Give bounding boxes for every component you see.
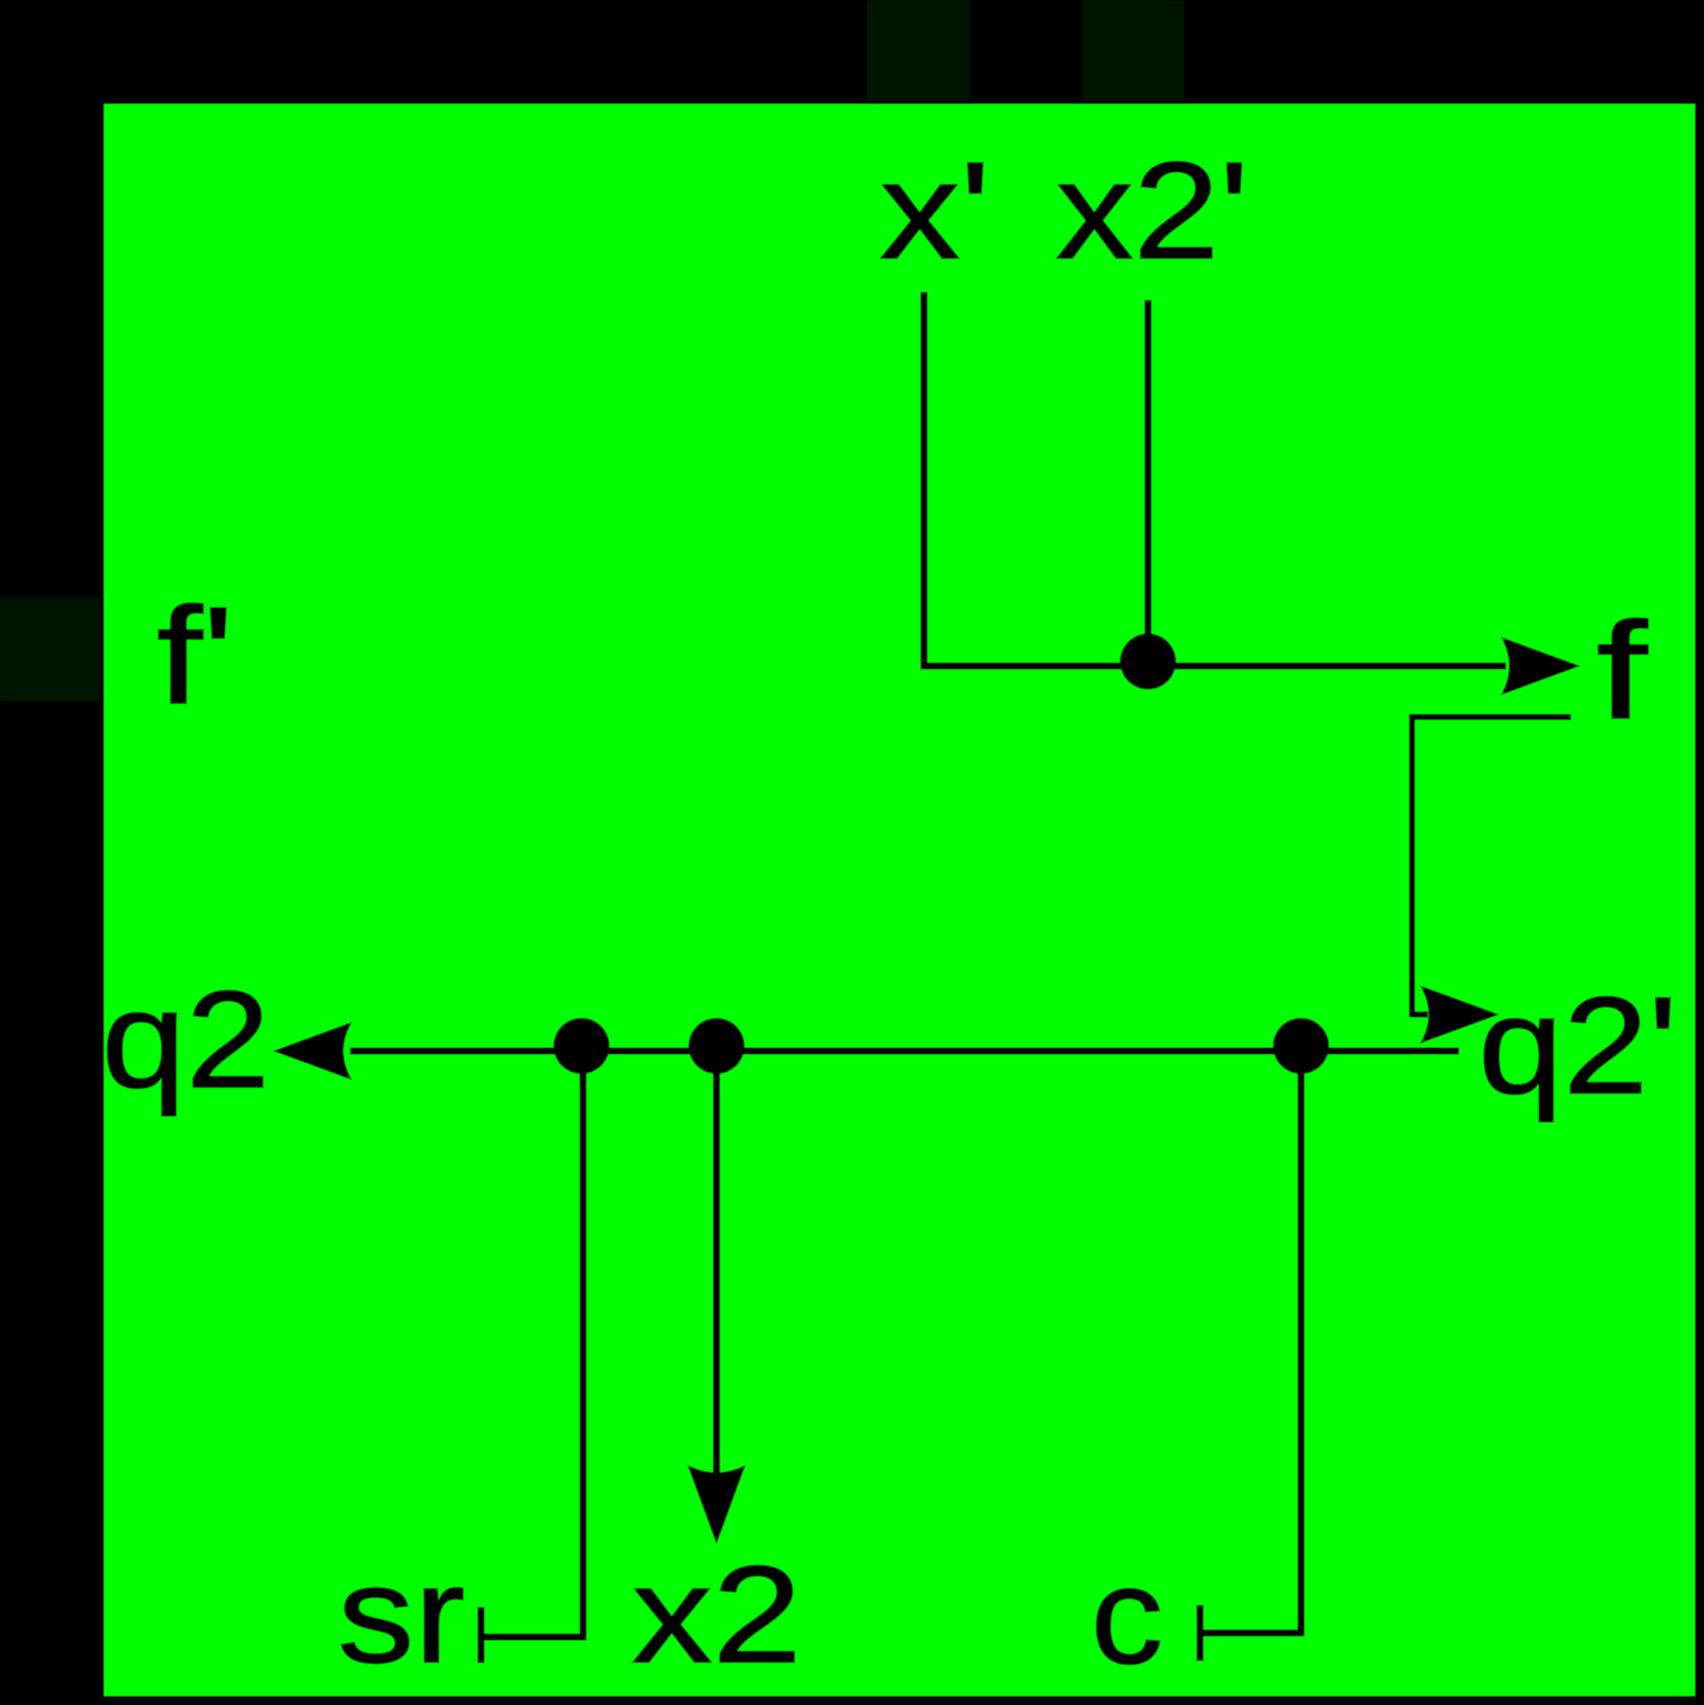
arrowhead into q2 bbox=[273, 1022, 352, 1080]
svg-text:sr: sr bbox=[338, 1538, 466, 1692]
junction dot x2 bbox=[689, 1018, 745, 1074]
arrowhead into q2' bbox=[1420, 986, 1499, 1044]
terminal tick c bbox=[1197, 1605, 1204, 1661]
junction dot on x line bbox=[1120, 634, 1176, 690]
junction dot sr bbox=[554, 1018, 610, 1074]
svg-text:x2: x2 bbox=[632, 1538, 802, 1692]
wire x2 vertical bbox=[713, 1051, 720, 1480]
svg-text:q2': q2' bbox=[1478, 969, 1678, 1123]
wire q2 horizontal bbox=[350, 1048, 1459, 1055]
left dark tab C bbox=[0, 599, 100, 701]
wire sr vertical + horizontal bbox=[481, 1051, 583, 1637]
arrowhead x2 down bbox=[688, 1465, 746, 1544]
svg-text:x': x' bbox=[880, 134, 991, 288]
svg-text:f': f' bbox=[157, 579, 234, 733]
junction dot c bbox=[1273, 1018, 1329, 1074]
svg-text:x2': x2' bbox=[1056, 134, 1249, 288]
wire x2' vertical bbox=[1145, 300, 1152, 666]
top dark tab A bbox=[867, 0, 969, 100]
svg-text:q2: q2 bbox=[101, 963, 270, 1117]
arrowhead into f bbox=[1501, 637, 1580, 695]
terminal tick sr bbox=[478, 1607, 485, 1663]
svg-text:c: c bbox=[1091, 1539, 1164, 1693]
svg-text:f: f bbox=[1596, 594, 1648, 748]
wire f feedback bbox=[1412, 717, 1571, 1015]
wire x' vertical + horizontal to f bbox=[924, 292, 1506, 666]
wire c vertical + horizontal bbox=[1200, 1051, 1301, 1633]
top dark tab B bbox=[1082, 0, 1184, 100]
